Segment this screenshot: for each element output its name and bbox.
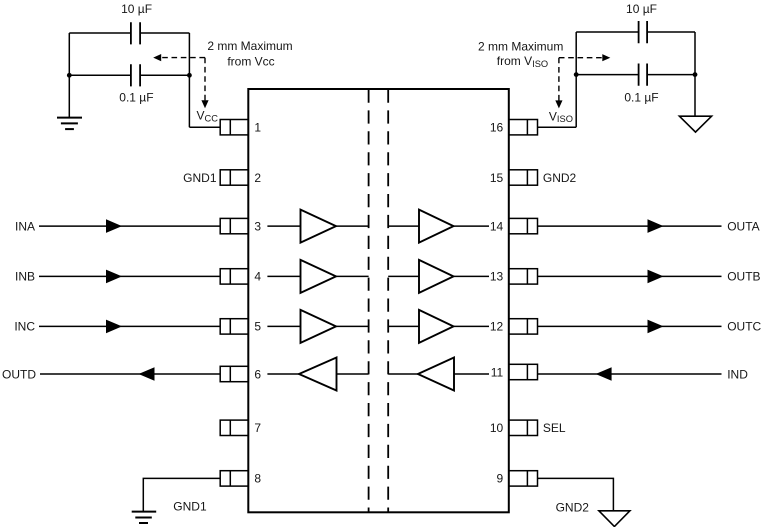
wire OUTC — [538, 325, 722, 327]
buffer channel A right — [419, 210, 454, 243]
wire barrier to buffer B right — [388, 275, 419, 277]
wire right cap network left leg — [575, 32, 577, 127]
capacitor C1 10uF plates — [131, 22, 140, 44]
wire INC — [39, 325, 220, 327]
svg-text:INC: INC — [14, 320, 35, 334]
wire buffer D right to pin11 — [454, 373, 489, 375]
wire INB — [39, 275, 220, 277]
svg-text:2 mm Maximum: 2 mm Maximum — [478, 39, 563, 53]
arrow INA — [106, 219, 122, 233]
wire IND — [538, 373, 722, 375]
svg-text:11: 11 — [491, 365, 504, 379]
svg-text:12: 12 — [490, 320, 504, 334]
ground GND1 top-left (earth) — [57, 118, 82, 130]
svg-text:10 µF: 10 µF — [121, 2, 152, 16]
wire buffer D to barrier — [337, 373, 369, 375]
wire OUTA — [538, 225, 722, 227]
ground chassis bottom-right — [599, 511, 630, 527]
buffer channel C left — [301, 310, 337, 343]
svg-text:OUTC: OUTC — [727, 320, 761, 334]
node junction right-b — [693, 72, 698, 77]
pin 12 box — [509, 319, 538, 334]
svg-text:OUTA: OUTA — [727, 219, 759, 233]
svg-text:5: 5 — [254, 320, 261, 334]
svg-text:OUTB: OUTB — [727, 270, 760, 284]
arrow OUTB — [648, 270, 664, 284]
ground chassis top-right — [679, 116, 711, 132]
wire right cap network bottom (0.1uF) — [576, 74, 695, 76]
ground GND1 bottom (earth) — [132, 512, 157, 523]
dashed arrow 2mm left — [153, 54, 208, 108]
buffer channel D right (points left) — [418, 358, 454, 391]
wire INA — [39, 225, 220, 227]
svg-text:GND1: GND1 — [173, 499, 207, 513]
wire buffer B right to pin13 — [454, 275, 490, 277]
arrow OUTD (points left) — [139, 367, 155, 381]
node junction left-b — [187, 73, 192, 78]
svg-text:16: 16 — [490, 121, 504, 135]
arrow INC — [106, 320, 122, 334]
wire pin3 to buffer A — [267, 225, 300, 227]
isolation barrier dashed line left — [368, 90, 370, 513]
wire buffer B to barrier — [336, 275, 369, 277]
wire left cap network right leg — [188, 33, 190, 127]
pin 10 box — [509, 420, 538, 435]
pin 2 box — [220, 170, 248, 185]
capacitor C4 0.1uF plates — [639, 64, 648, 86]
svg-text:GND2: GND2 — [556, 500, 590, 514]
buffer channel B right — [419, 260, 454, 293]
arrow OUTC — [648, 320, 664, 334]
capacitor C2 0.1uF plates — [131, 64, 140, 86]
pin 14 box — [509, 218, 538, 233]
svg-text:8: 8 — [254, 472, 261, 486]
svg-text:2: 2 — [254, 171, 261, 185]
wire pin6 to buffer D — [267, 373, 299, 375]
svg-text:7: 7 — [254, 421, 261, 435]
svg-text:INB: INB — [15, 270, 35, 284]
wire buffer A right to pin14 — [454, 225, 490, 227]
node junction right-a — [574, 72, 579, 77]
svg-text:SEL: SEL — [543, 421, 566, 435]
svg-text:VISO: VISO — [549, 109, 573, 124]
wire pin16 to Viso — [538, 126, 577, 128]
pin 8 box — [220, 471, 248, 486]
wire OUTD — [40, 373, 220, 375]
svg-text:6: 6 — [254, 367, 261, 381]
svg-text:OUTD: OUTD — [2, 367, 36, 381]
pin 1 box — [220, 120, 248, 135]
pin 5 box — [220, 319, 248, 334]
pin 13 box — [509, 269, 538, 284]
wire left cap network bottom (0.1uF) — [69, 74, 189, 76]
svg-text:15: 15 — [490, 171, 504, 185]
svg-text:10 µF: 10 µF — [626, 2, 657, 16]
node junction left-a — [67, 73, 72, 78]
svg-text:10: 10 — [490, 421, 504, 435]
wire buffer A to barrier — [336, 225, 369, 227]
wire Vcc to pin1 — [189, 126, 220, 128]
svg-text:4: 4 — [254, 270, 261, 284]
pin 6 box — [220, 366, 248, 381]
pin 7 box — [220, 420, 248, 435]
svg-text:1: 1 — [254, 121, 261, 135]
wire OUTB — [538, 275, 722, 277]
pin 3 box — [220, 218, 248, 233]
wire left cap network top (10uF) — [69, 32, 189, 34]
svg-text:2 mm Maximum: 2 mm Maximum — [207, 39, 292, 53]
wire pin5 to buffer C — [267, 325, 300, 327]
svg-text:0.1 µF: 0.1 µF — [624, 90, 658, 104]
pin 15 box — [509, 170, 538, 185]
buffer channel A left — [301, 210, 337, 243]
wire pin9 to GND2 — [538, 478, 614, 510]
wire right cap network right leg — [694, 32, 696, 116]
svg-text:VCC: VCC — [197, 108, 219, 123]
IC body U1 — [248, 89, 509, 512]
wire pin8 to GND1 — [143, 478, 220, 511]
arrow INB — [106, 270, 122, 284]
svg-text:GND2: GND2 — [543, 171, 577, 185]
svg-text:IND: IND — [727, 367, 748, 381]
wire right cap network top (10uF) — [576, 31, 695, 33]
svg-text:13: 13 — [490, 270, 504, 284]
svg-text:3: 3 — [254, 219, 261, 233]
svg-text:14: 14 — [490, 219, 504, 233]
isolation barrier dashed line right — [387, 90, 389, 513]
capacitor C3 10uF plates — [639, 21, 648, 43]
svg-text:9: 9 — [497, 472, 504, 486]
dashed arrow 2mm right — [555, 54, 610, 108]
buffer channel C right — [419, 310, 454, 343]
arrow IND (points left) — [596, 367, 612, 381]
svg-text:0.1 µF: 0.1 µF — [119, 90, 153, 104]
arrow OUTA — [648, 219, 664, 233]
wire barrier to buffer A right — [388, 225, 419, 227]
svg-text:GND1: GND1 — [183, 171, 217, 185]
wire buffer C right to pin12 — [454, 325, 490, 327]
wire barrier to buffer D right — [388, 373, 418, 375]
buffer channel D left (points left) — [299, 358, 337, 391]
wire buffer C to barrier — [336, 325, 369, 327]
pin 9 box — [509, 471, 538, 486]
svg-text:from VISO: from VISO — [497, 54, 548, 69]
svg-text:from Vcc: from Vcc — [227, 54, 274, 68]
wire barrier to buffer C right — [388, 325, 419, 327]
wire pin4 to buffer B — [267, 275, 300, 277]
pin 16 box — [509, 120, 538, 135]
pin 11 box — [509, 364, 538, 379]
svg-text:INA: INA — [15, 219, 35, 233]
wire left cap network left leg — [68, 33, 70, 117]
buffer channel B left — [301, 260, 337, 293]
pin 4 box — [220, 269, 248, 284]
